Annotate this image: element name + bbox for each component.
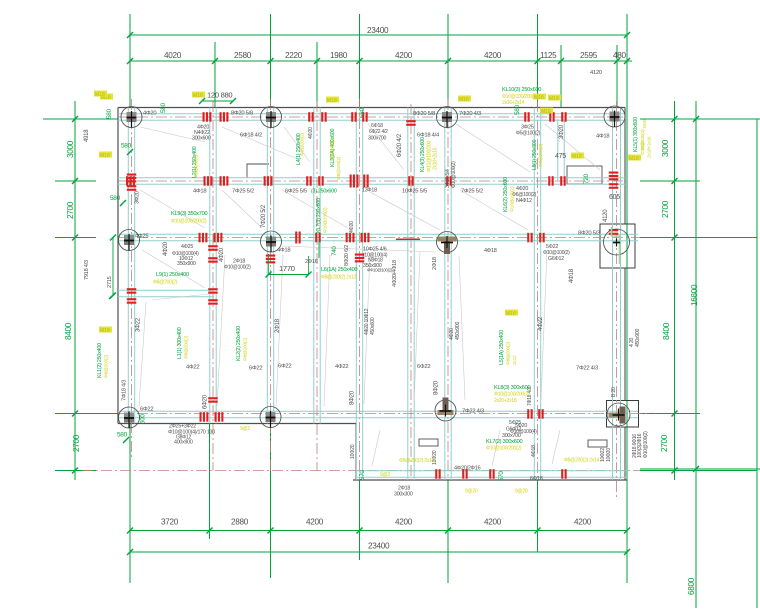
svg-text:3000: 3000 [66,140,75,158]
column I3 big [607,403,630,426]
svg-text:720: 720 [583,173,590,184]
svg-text:8Φ20 5/8: 8Φ20 5/8 [413,111,435,117]
svg-text:G6Φ12: G6Φ12 [506,427,521,433]
svg-text:9@2: 9@2 [380,472,390,478]
svg-text:580: 580 [106,108,113,119]
svg-text:M18: M18 [541,109,551,115]
yellow markers [100,94,113,100]
svg-text:4200: 4200 [306,518,324,527]
svg-text:Φ8@200(2): Φ8@200(2) [153,280,178,286]
svg-text:300x300: 300x300 [394,492,413,498]
svg-text:10Φ20: 10Φ20 [350,444,356,459]
svg-text:M18: M18 [100,153,110,159]
svg-text:4Φ20: 4Φ20 [219,247,225,262]
svg-text:4Φ18: 4Φ18 [569,268,575,283]
slab diagonal leader lines [140,127,205,142]
svg-text:2700: 2700 [660,434,669,452]
svg-text:8Φ20 5/3: 8Φ20 5/3 [578,231,600,237]
column C2 [261,231,282,252]
svg-text:Φ10@100/200(2): Φ10@100/200(2) [494,392,530,398]
svg-text:4Φ20: 4Φ20 [308,127,314,139]
svg-text:4918: 4918 [84,129,90,142]
right dim lines [674,101,676,480]
svg-text:8Φ20: 8Φ20 [350,390,356,405]
svg-text:Φ10@100(2): Φ10@100(2) [323,207,329,233]
svg-text:KL5(1) 300x600: KL5(1) 300x600 [633,117,639,152]
svg-text:600: 600 [140,414,147,424]
column A1 [121,107,142,128]
svg-text:Φ8@200(2): Φ8@200(2) [300,132,306,156]
svg-text:480: 480 [613,51,627,60]
svg-text:6Φ22: 6Φ22 [417,364,430,370]
svg-text:400x900: 400x900 [174,440,193,446]
svg-text:23400: 23400 [367,26,389,35]
svg-text:Φ8@200(2) 2x14: Φ8@200(2) 2x14 [399,458,434,464]
svg-text:580: 580 [121,143,132,150]
mini dim 120 880 [202,100,233,102]
svg-text:L6(1A) 250x400: L6(1A) 250x400 [321,267,357,273]
svg-text:Φ10@100/200(2): Φ10@100/200(2) [486,446,522,452]
svg-text:N4Φ12: N4Φ12 [516,198,532,204]
svg-text:Φ8@200(2): Φ8@200(2) [506,341,512,365]
svg-text:6Φ18 4/2: 6Φ18 4/2 [240,133,262,139]
svg-text:9@2: 9@2 [240,426,250,432]
svg-text:740: 740 [331,246,338,256]
svg-text:M18: M18 [642,119,648,128]
svg-text:3Φ20: 3Φ20 [135,191,141,204]
svg-text:6Φ22: 6Φ22 [249,366,262,372]
svg-text:L1(1) 300x400: L1(1) 300x400 [177,327,183,359]
svg-text:2595: 2595 [580,51,598,60]
svg-text:M18: M18 [100,328,110,334]
svg-text:8400: 8400 [662,322,671,340]
svg-text:450x900: 450x900 [635,328,641,347]
svg-text:7Φ20 4/3: 7Φ20 4/3 [459,111,481,117]
svg-text:2700: 2700 [66,201,75,219]
svg-text:4200: 4200 [574,518,592,527]
svg-text:13Φ18: 13Φ18 [362,188,377,194]
svg-text:Φ8@200(2): Φ8@200(2) [104,354,110,378]
svg-text:M18: M18 [629,156,639,162]
svg-text:6Φ25 5/5: 6Φ25 5/5 [285,189,307,195]
svg-text:Φ8@200(2): Φ8@200(2) [538,143,544,167]
svg-text:580: 580 [117,432,128,439]
svg-text:10Φ25 5/5: 10Φ25 5/5 [402,189,427,195]
svg-text:4120: 4120 [603,209,609,222]
svg-text:KL10(3) 250x600: KL10(3) 250x600 [502,87,541,93]
svg-text:Φ8@200(2) 2x14: Φ8@200(2) 2x14 [564,458,599,464]
svg-text:7Φ20 5/2: 7Φ20 5/2 [261,204,267,228]
tick mid-left beam [109,293,115,299]
column C1 [261,107,282,128]
svg-text:4120: 4120 [590,70,602,76]
svg-text:7Φ22 4/3: 7Φ22 4/3 [576,366,598,372]
svg-text:6Φ20 4/2: 6Φ20 4/2 [397,133,403,157]
svg-text:3Φ22: 3Φ22 [136,317,142,332]
column F2 [437,232,458,253]
svg-text:M18: M18 [193,93,203,99]
svg-text:350x900: 350x900 [177,261,196,267]
svg-text:Φ10@100(2): Φ10@100(2) [451,161,457,188]
svg-text:2x18+2x16: 2x18+2x16 [433,147,439,170]
svg-text:120 880: 120 880 [207,91,232,100]
svg-text:M18: M18 [534,95,544,101]
svg-text:300x700: 300x700 [368,136,387,142]
svg-text:G6Φ12: G6Φ12 [548,256,564,262]
column F3 [435,400,456,421]
svg-text:6Φ18: 6Φ18 [530,476,543,482]
svg-text:2Φ18: 2Φ18 [432,257,438,270]
column I2 big [604,229,630,255]
svg-text:4Φ20: 4Φ20 [143,111,156,117]
svg-text:1770: 1770 [279,264,295,273]
svg-text:5Φ25: 5Φ25 [509,420,521,426]
svg-text:2220: 2220 [285,51,303,60]
svg-text:3720: 3720 [161,518,179,527]
svg-text:4Φ18: 4Φ18 [531,445,537,457]
svg-text:4Φ22: 4Φ22 [335,364,348,370]
column box right mid [600,224,635,268]
svg-text:8Φ20 5/8: 8Φ20 5/8 [231,111,253,117]
svg-text:4Φ20/2Φ16: 4Φ20/2Φ16 [454,466,481,472]
svg-text:4Φ18: 4Φ18 [277,248,290,254]
svg-text:6Φ22: 6Φ22 [278,364,291,370]
svg-text:580: 580 [160,102,167,113]
svg-text:2700: 2700 [661,200,670,218]
left dim line [74,101,76,480]
svg-text:450x900: 450x900 [455,321,461,340]
svg-text:2700: 2700 [72,434,81,452]
svg-text:Φ8@200(2): Φ8@200(2) [184,335,190,359]
stair notch [247,164,269,178]
svg-text:300x600: 300x600 [192,136,211,142]
svg-text:4Φ22: 4Φ22 [538,316,544,331]
svg-text:4Φ25: 4Φ25 [181,244,193,250]
svg-text:KL7(2) 300x600: KL7(2) 300x600 [486,439,522,445]
svg-text:M18: M18 [459,97,469,103]
svg-text:M18: M18 [95,92,105,98]
wall stub extension right [588,440,607,447]
svg-text:8Φ20 6/2: 8Φ20 6/2 [344,245,350,266]
svg-text:Φ8@100(2): Φ8@100(2) [330,137,336,161]
svg-text:7Φ22 4/3: 7Φ22 4/3 [462,409,484,415]
dim line total bottom 23400 [130,551,627,553]
svg-text:8400: 8400 [64,322,73,340]
svg-text:2Φ18: 2Φ18 [275,318,281,333]
svg-text:KL6(2) 250x600: KL6(2) 250x600 [503,177,509,212]
plan outline [118,107,625,109]
svg-text:M18: M18 [549,96,559,102]
svg-text:2580: 2580 [234,51,252,60]
svg-text:570: 570 [359,470,366,480]
svg-text:2x12: 2x12 [512,355,518,365]
svg-text:4200: 4200 [484,51,502,60]
svg-text:450x600: 450x600 [370,317,376,335]
svg-text:1980: 1980 [330,51,348,60]
svg-text:KL2(2) 250x400: KL2(2) 250x400 [236,326,242,361]
dim line total top 23400 [130,34,627,36]
svg-text:2880: 2880 [231,518,249,527]
svg-text:7Φ18 4/3: 7Φ18 4/3 [122,380,128,401]
vertical beams [127,108,129,424]
svg-text:Φ10@100(2): Φ10@100(2) [643,431,649,458]
svg-text:23400: 23400 [368,542,390,551]
svg-text:Φ8@200(2): Φ8@200(2) [194,154,200,178]
svg-text:6Φ20: 6Φ20 [203,394,209,409]
svg-text:ΦΦ10@100(2): ΦΦ10@100(2) [367,268,393,273]
svg-text:4020: 4020 [164,51,182,60]
svg-text:7Φ25 5/2: 7Φ25 5/2 [232,189,254,195]
svg-text:B 20: B 20 [611,387,617,397]
svg-text:KL?(3) 250x600: KL?(3) 250x600 [316,198,322,233]
svg-text:7Φ25 5/2: 7Φ25 5/2 [461,189,483,195]
svg-text:605: 605 [609,194,620,201]
svg-text:9@20: 9@20 [465,489,478,495]
svg-text:Φ10@100(2): Φ10@100(2) [510,186,516,212]
svg-text:M18: M18 [640,141,646,150]
svg-text:L5(1A) 250x400: L5(1A) 250x400 [499,330,505,365]
svg-text:8Φ20: 8Φ20 [434,380,440,395]
svg-text:4Φ22: 4Φ22 [186,365,199,371]
wall stub extension left [419,439,438,446]
horizontal beams [118,113,625,115]
svg-text:7918 4/3: 7918 4/3 [84,260,90,280]
svg-text:M18: M18 [572,154,582,160]
svg-text:L9(1) 250x400: L9(1) 250x400 [156,272,189,278]
svg-text:4Φ20/4Φ18: 4Φ20/4Φ18 [392,260,398,287]
svg-text:Φ8@200(2) 2x12: Φ8@200(2) 2x12 [321,275,356,281]
svg-text:4200: 4200 [395,51,413,60]
svg-text:KL9(3) 350x700: KL9(3) 350x700 [171,211,207,217]
svg-text:2x18+2x16: 2x18+2x16 [647,136,653,158]
svg-text:Φ8@200(2): Φ8@200(2) [243,337,249,361]
svg-text:1125: 1125 [540,51,557,60]
svg-text:580: 580 [110,195,121,202]
svg-text:570: 570 [498,471,505,481]
svg-text:2715: 2715 [107,276,113,288]
svg-text:4Φ20: 4Φ20 [349,221,355,233]
small box near H R2 [567,166,602,184]
svg-text:4Φ25: 4Φ25 [135,234,148,240]
svg-text:Φ10@100(2): Φ10@100(2) [224,265,251,271]
mini dim 2715 [112,238,114,296]
svg-text:4200: 4200 [395,518,413,527]
svg-text:KL4(3) 250x600: KL4(3) 250x600 [420,137,426,172]
svg-text:KL8(3) 300x600: KL8(3) 300x600 [494,385,530,391]
svg-text:M18: M18 [327,98,337,104]
svg-text:2x16+2x14: 2x16+2x14 [502,100,525,106]
svg-text:4Φ20: 4Φ20 [163,241,169,256]
grid verticals green [129,14,131,108]
column C3 [260,407,281,428]
column box right bottom [607,401,639,428]
column A3 [119,407,140,428]
svg-text:6800: 6800 [687,577,696,595]
column I1 [604,106,625,127]
svg-text:Φ10@100/200(2): Φ10@100/200(2) [171,219,207,225]
column A2 [119,230,140,251]
svg-text:Φ5@100(2): Φ5@100(2) [516,131,541,137]
svg-text:(3) 250x600: (3) 250x600 [311,189,337,195]
svg-text:2Φ16: 2Φ16 [305,259,318,265]
svg-text:4200: 4200 [484,518,502,527]
svg-text:3Φ20: 3Φ20 [559,124,565,139]
svg-text:3000: 3000 [661,139,670,157]
svg-text:L8(1) 250x300: L8(1) 250x300 [532,139,538,170]
column F1 [437,107,458,128]
dim line bottom segments [130,530,627,532]
svg-text:9@20: 9@20 [515,489,528,495]
svg-text:6Φ22 4/2: 6Φ22 4/2 [369,129,388,135]
svg-text:16800: 16800 [690,284,699,306]
svg-text:475: 475 [555,153,566,160]
svg-text:4Φ18: 4Φ18 [596,134,609,140]
svg-text:4Φ18: 4Φ18 [193,189,206,195]
svg-text:4Φ18: 4Φ18 [484,248,497,254]
dim line top segments [130,60,632,62]
axis centerlines [131,99,133,460]
svg-text:580: 580 [359,107,366,118]
svg-text:M18: M18 [506,311,516,317]
svg-text:2x20+2x18: 2x20+2x18 [494,398,517,404]
red rebar marks [203,112,205,122]
mini dim 1770 [269,274,309,276]
svg-text:KL1(2) 250x400: KL1(2) 250x400 [97,343,103,378]
svg-text:6Φ22: 6Φ22 [140,407,153,413]
svg-text:10Φ20: 10Φ20 [606,448,612,462]
svg-text:Φ8@100(2): Φ8@100(2) [336,156,342,180]
